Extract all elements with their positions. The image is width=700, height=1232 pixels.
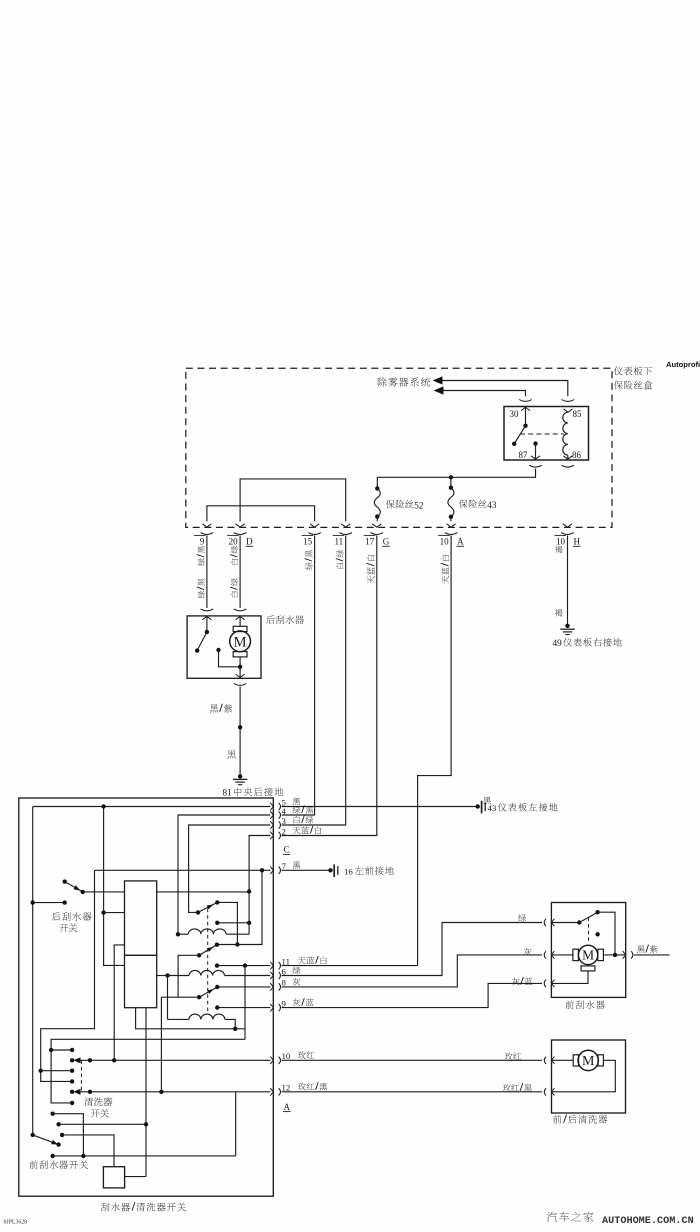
S1 lower contact link [215,921,251,925]
junction M2 output [613,953,617,957]
R2 right tap to coil L2 [157,973,170,977]
wire S3 common link [161,996,199,998]
rear wiper park switch [195,616,209,652]
svg-text:C: C [284,845,290,855]
front wiper connector gray/blue [544,980,554,988]
svg-text:0JPL3628: 0JPL3628 [4,1220,28,1226]
switch pin 5 [270,797,300,810]
motor M1 bottom brush [233,652,247,678]
mechanical dashed link S1-S2-S3 [207,909,209,1014]
fuse 52 (保险丝52) [374,486,380,521]
wire pin3 internal [189,825,271,912]
FW arm tip contact [56,1142,60,1146]
wire pin5 to ground 143 [282,806,478,808]
label: washer switch [84,1098,112,1118]
coil L1 (intermittent) [188,929,249,934]
label wire H color (brown) lower [555,609,563,617]
switch pin 4 [270,805,313,818]
washer link lower [51,1050,74,1105]
label: rear wiper [266,615,304,624]
svg-text:10: 10 [440,537,450,547]
wire pin7 to ground 16 [282,869,331,871]
connector pin 17/G (fuse box) [364,524,390,547]
motor M3 (washer pump) [578,1050,598,1070]
junction pin7/vertical B [260,868,264,872]
label: defogger system [378,377,430,386]
coil L2 (wash wipe) [168,970,271,975]
resistor R2 [125,955,157,1007]
FW contact 3 [60,1133,114,1167]
relay pin 85 arrow [564,409,573,412]
junction: fuse 43 tap [449,475,453,479]
square right lead [125,1176,146,1178]
label ground 49 [553,638,622,648]
rear wiper connector pin (wire 9) [201,609,214,620]
label rose-red [505,1053,521,1061]
wire 11 riser [282,535,346,825]
wire 20 riser (white/green) [239,535,241,608]
relay K1 box [504,407,589,461]
label gray/blue [512,977,532,985]
svg-text:30: 30 [510,409,520,419]
connector pin 10/A (fuse box) [438,524,464,547]
label wire A color [441,555,449,584]
wire: pin11 node riser down [244,966,246,1040]
fuse box (dashed enclosure) under instrument panel [186,368,612,527]
svg-text:M: M [582,1054,595,1069]
wire R1 out to pin2 node [157,891,249,893]
svg-text:52: 52 [414,500,424,510]
label ground 16 [344,866,394,876]
washer connector rose-red/black [544,1088,554,1096]
svg-text:85: 85 [573,409,583,419]
wire 15 riser [282,535,315,815]
junction washer contact feed [39,1069,43,1073]
relay pin 30 connector [519,400,532,411]
wire pin6 ext to front wiper [282,923,542,976]
washer connector rose-red [544,1057,554,1065]
label green [518,914,526,922]
wire pin2 internal [249,836,270,892]
wire: L2 junction down to coil L3 [167,976,169,1020]
svg-text:H: H [574,537,581,547]
rear wiper park contact to motor [216,648,240,667]
wire washer L2 link [51,1039,245,1050]
svg-text:20: 20 [229,537,239,547]
switch pin 9 [270,998,313,1011]
junction pin11/riser [243,963,247,967]
arrow to defogger (lower) [434,386,444,394]
wire pin4 internal [178,815,270,934]
relay pin 85 connector [562,400,575,402]
washer pump unit square [103,1167,124,1188]
S2-S3 common link [178,955,199,997]
svg-text:A: A [284,1102,291,1112]
svg-text:9: 9 [282,998,287,1008]
svg-text:12: 12 [282,1083,291,1093]
wire H riser [567,535,569,624]
relay switch arm (30 to 87) [512,424,528,446]
junction R1 upper tap [101,910,105,914]
motor M3 left brush [552,1055,579,1066]
watermark autohome [547,1212,694,1227]
relay pin 85 label [573,409,583,419]
R2 bottom lead to bus [136,1008,245,1029]
S2 lower contact to pin11 [215,963,270,967]
label wire 17 color [366,555,374,584]
svg-text:Autoprofi: Autoprofi [666,360,700,369]
FW contact 1 [51,1112,84,1156]
label black at G143 [483,797,491,804]
junction pin2-drop/W1 line [247,889,251,893]
FW motor output pin [623,951,633,959]
label: front wiper switch [29,1160,88,1169]
connector pin 9 (fuse box) [194,524,213,547]
wire pin11 ext to fuse A riser [282,965,418,967]
relay pin 86 connector [562,465,575,467]
relay coil (85-86) [563,412,568,455]
svg-text:11: 11 [335,537,344,547]
wire: drop to fuse 52 [376,477,378,488]
washer switch SW-A (pin10) [70,1057,92,1063]
motor M1 top brush [233,616,247,631]
FW motor switch dashed link [588,917,590,943]
svg-text:M: M [582,948,594,963]
svg-text:2: 2 [282,826,286,836]
label wire H color (brown) upper [555,546,563,554]
ground G81 symbol [233,774,247,785]
label wire 9 color x2 [197,546,205,598]
switch pin 12 [270,1082,327,1095]
switch S3 arm [199,985,219,997]
wire: pin7 ground to S2 common rail [217,870,262,944]
wire pin5 internal (ground bus) [33,806,271,808]
ground link pin7 to washer area [41,870,95,1081]
svg-text:6: 6 [282,966,287,976]
label black/purple (front) [637,945,658,953]
wire: bottom line riser to pin12 line [235,1092,237,1156]
washer switches dashed link [80,1060,82,1092]
connector pin 11 (fuse box) [333,524,352,547]
wire pin12 ext to washer motor [282,1091,542,1093]
wire: defogger lower line to relay pin 30 [444,391,526,397]
svg-text:8: 8 [282,978,287,988]
wire S1 arm to rail [217,902,237,944]
switch pin 7 [270,861,300,874]
wire pin9 ext to front wiper [282,983,542,1007]
front wiper connector gray [544,951,554,959]
svg-text:15: 15 [303,537,313,547]
motor M2 low-speed brush [551,966,594,984]
svg-text:10: 10 [282,1051,291,1061]
connector C label [283,845,290,855]
label rose-red/black [503,1083,532,1091]
front wiper switch pivot [31,1133,35,1137]
splice on ground wire [238,725,242,729]
front wiper motor box [551,903,625,998]
svg-text:86: 86 [572,450,582,460]
wiper/washer switch box [19,798,273,1196]
rear wiper connector pin (wire 20) [234,609,247,620]
coil L3 (washer delay) [168,1014,236,1029]
watermark Autoprofi top-right [666,360,700,369]
label wire 20 color x2 [230,546,238,597]
relay internal dashed link [520,433,564,435]
svg-text:G: G [383,537,390,547]
connector pin 20/D (fuse box) [227,524,253,547]
junction pin10/R1-tap [112,1058,116,1062]
FW contact 2 [56,1122,146,1126]
junction pin5/left drop [101,804,105,808]
svg-text:A: A [457,537,464,547]
ground drop to resistor R1 [104,807,125,966]
S3 upper contact to pin8 [217,986,270,988]
wire pin7 internal (ground) [95,869,271,871]
FW bottom contact line [51,1154,236,1158]
svg-text:81: 81 [223,787,233,797]
rear wiper switch W1 arm [65,882,85,895]
motor M2 right brush [598,949,626,960]
washer pump motor box [552,1040,626,1113]
wire A riser with jog [418,535,452,965]
arrow to defogger (upper) [433,376,443,384]
label wire 11 color [336,550,344,569]
wire pin2 node down to coil L1 [248,891,250,934]
label: fuse box name [614,367,652,390]
wire black/purple stub [634,954,670,956]
svg-text:11: 11 [282,956,290,966]
motor M3 return loop [552,1060,616,1092]
label black/purple [210,704,232,713]
front wiper connector green [544,919,554,927]
relay contact 87 [531,441,540,459]
relay pin 86 label [572,450,582,460]
wire W1 arm to R1 [83,891,125,893]
svg-text:4: 4 [282,806,287,816]
wire: defogger upper line to relay pin 85 [443,381,568,397]
svg-text:3: 3 [282,816,287,826]
connector pin 15 (fuse box) [302,524,321,547]
label gray [524,948,532,956]
wire pin10 ext to washer motor [282,1059,542,1061]
label black [227,750,235,758]
switch pin 10 [270,1051,314,1064]
ground splice G16 [328,864,338,877]
switch pin 6 [270,966,300,979]
junction L2-link [49,1048,74,1052]
svg-text:87: 87 [519,450,529,460]
switch S2 common [197,953,201,957]
FW motor speed switch [551,910,615,955]
wire: drop to fuse 43 [450,477,452,487]
junction pin12/link [159,1090,163,1094]
ground bus left drop [32,807,34,1135]
svg-text:D: D [246,537,253,547]
wire: relay pin 30 lead [525,407,527,426]
wire: black/purple to ground [239,687,241,777]
W1 ground contact stub [31,900,67,904]
relay pin 86 lead [563,455,572,459]
label: front/rear washer [553,1114,607,1123]
connector pin 10/H (fuse box) [555,524,581,547]
FW motor unused contact [595,932,599,936]
wire 17 riser [282,535,377,835]
rear wiper motor box [187,616,261,678]
fuse box internal bus 9-15 [207,506,315,522]
wire: link down to pin12 line [160,997,162,1092]
wire pin10 internal [90,1059,270,1061]
relay pin 87 label [519,450,529,460]
wire pin12 internal [90,1091,270,1093]
svg-text:49: 49 [553,638,563,648]
connector A label [283,1102,291,1112]
svg-text:9: 9 [200,537,205,547]
switch pin 8 [270,978,300,991]
switch S3 common [197,995,201,999]
label: wiper/washer switch [101,1202,186,1211]
svg-text:AUTOHOME.COM.CN: AUTOHOME.COM.CN [602,1216,694,1227]
S3 lower contact to pin9 [215,1005,270,1009]
label: fuse 43 [459,499,497,509]
ground splice G143 [476,801,486,814]
motor M2 (front wiper) [578,945,597,964]
junction L3/bus [233,1027,237,1031]
svg-text:16: 16 [344,866,353,876]
relay pin 87 connector [529,465,542,467]
washer switch SW-B (pin12) [70,1089,92,1095]
svg-text:17: 17 [365,537,375,547]
rear wiper switch W1 pivot [62,879,66,883]
svg-text:43: 43 [487,500,497,510]
label: front wiper [565,1000,604,1009]
wire pin8 ext to front wiper [282,955,542,987]
switch pin 2 [270,826,321,839]
fuse 43 (保险丝43) [448,486,454,522]
motor M2 left brush [551,949,578,960]
junction square riser/contact line [144,1122,148,1126]
R1 upper tap stub [104,912,125,914]
R2 bottom lead to washer pump square [145,1008,147,1177]
label wire 15 color [305,550,313,570]
label ground 81 [223,787,284,797]
washer contact stub a [41,1069,75,1073]
svg-text:7: 7 [282,861,287,871]
switch S1 arm [198,900,220,912]
label: fuse 52 [386,500,424,510]
R1 tap to pin10 node [114,945,124,1060]
switch S1 contact [196,910,200,914]
washer contact b [70,1079,74,1083]
label ground 143 [488,803,558,813]
rear wiper motor output pin [234,674,247,685]
wire: 87 feed to fuses [377,469,535,478]
motor M1 (rear wiper) [230,631,251,652]
switch pin 11 [270,956,326,969]
label: rear wiper switch [52,912,92,932]
switch S2 arm [199,943,219,956]
motor M3 right brush [598,1055,603,1066]
ground G49 symbol [560,624,574,635]
resistor R1 [125,881,157,955]
document code bottom-left [4,1220,28,1226]
switch pin 3 [270,815,313,828]
svg-text:43: 43 [488,803,497,813]
svg-text:10: 10 [556,537,566,547]
wire 9 riser (green/black) [206,535,208,608]
coil L1 left lead [176,932,189,936]
junction rail/S1-arm drop [235,942,239,946]
fuse box internal bus D-11 [240,479,346,522]
front wiper switch arm [33,1135,58,1145]
svg-text:M: M [234,634,247,650]
relay pin 30 label [510,409,520,419]
